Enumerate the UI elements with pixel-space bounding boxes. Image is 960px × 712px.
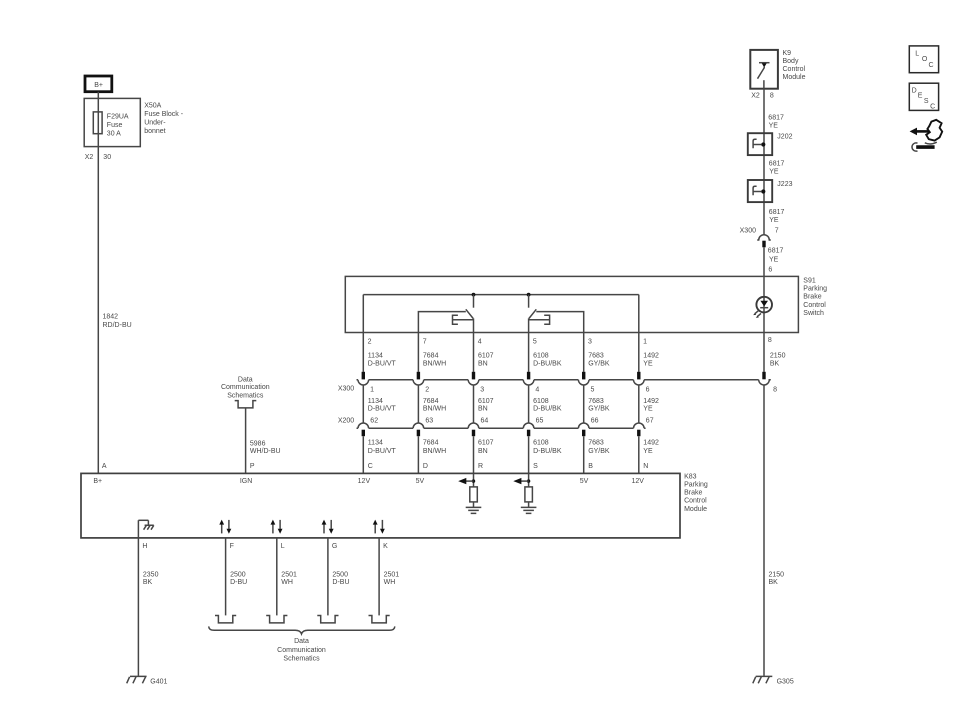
svg-text:L: L	[281, 543, 285, 550]
svg-text:1: 1	[643, 339, 647, 346]
svg-text:B+: B+	[93, 478, 102, 485]
svg-text:5V: 5V	[416, 478, 425, 485]
svg-text:WH: WH	[384, 579, 396, 586]
svg-text:D: D	[423, 463, 428, 470]
svg-text:12V: 12V	[631, 478, 644, 485]
svg-text:65: 65	[536, 418, 544, 425]
svg-text:64: 64	[481, 418, 489, 425]
svg-text:Brake: Brake	[684, 490, 702, 497]
svg-text:BK: BK	[769, 579, 779, 586]
svg-text:Control: Control	[684, 498, 707, 505]
svg-text:GY/BK: GY/BK	[588, 405, 610, 412]
svg-text:J202: J202	[777, 134, 792, 141]
svg-text:Parking: Parking	[803, 286, 827, 293]
svg-text:1134: 1134	[368, 440, 383, 447]
svg-text:2: 2	[425, 387, 429, 394]
svg-text:Fuse: Fuse	[107, 122, 123, 129]
off-page connector symbol	[369, 616, 390, 623]
data wire to off-page connector	[225, 538, 227, 616]
svg-text:X2: X2	[751, 93, 760, 100]
off-page connector symbol at P	[235, 401, 257, 408]
svg-text:6108: 6108	[533, 440, 549, 447]
svg-text:7683: 7683	[588, 398, 604, 405]
svg-text:H: H	[142, 543, 147, 550]
splice J223	[748, 180, 772, 202]
svg-text:66: 66	[591, 418, 599, 425]
svg-text:6817: 6817	[769, 209, 785, 216]
data wire to off-page connector	[378, 538, 380, 616]
svg-text:G305: G305	[777, 678, 794, 685]
svg-text:D-BU: D-BU	[230, 579, 247, 586]
svg-text:2500: 2500	[230, 571, 246, 578]
internal pull-up resistor	[528, 473, 530, 487]
left switch contact	[418, 312, 465, 372]
svg-text:YE: YE	[769, 123, 779, 130]
svg-text:1: 1	[370, 387, 374, 394]
svg-text:8: 8	[773, 386, 777, 393]
icon DESC box	[909, 83, 938, 110]
svg-text:S: S	[533, 463, 538, 470]
svg-text:F29UA: F29UA	[107, 113, 129, 120]
svg-text:1492: 1492	[643, 440, 659, 447]
svg-text:GY/BK: GY/BK	[588, 448, 610, 455]
svg-text:X300: X300	[338, 386, 354, 393]
svg-text:YE: YE	[643, 405, 653, 412]
junction dot	[527, 293, 531, 297]
svg-text:8: 8	[768, 337, 772, 344]
svg-text:D-BU/BK: D-BU/BK	[533, 360, 562, 367]
off-page connector symbol	[317, 616, 338, 623]
svg-text:F: F	[230, 543, 234, 550]
svg-text:X200: X200	[338, 418, 354, 425]
connector band X300 (top) / X200 (bottom)	[357, 380, 771, 385]
svg-text:Under-: Under-	[144, 120, 166, 127]
svg-text:6108: 6108	[533, 353, 549, 360]
svg-text:7684: 7684	[423, 353, 439, 360]
svg-text:YE: YE	[643, 360, 653, 367]
svg-text:6108: 6108	[533, 398, 549, 405]
svg-text:7684: 7684	[423, 440, 439, 447]
wire pin 2	[362, 295, 364, 372]
svg-text:D-BU/BK: D-BU/BK	[533, 448, 562, 455]
svg-text:Brake: Brake	[803, 294, 821, 301]
svg-text:Body: Body	[783, 58, 799, 65]
internal chassis ground at H	[138, 519, 148, 521]
svg-text:BN: BN	[478, 405, 488, 412]
right switch contact	[536, 312, 583, 372]
splice J202	[748, 133, 772, 155]
svg-text:12V: 12V	[358, 478, 371, 485]
wire ticks at X300 row	[362, 372, 365, 380]
svg-text:2: 2	[368, 339, 372, 346]
svg-text:G401: G401	[150, 679, 167, 686]
svg-text:D-BU: D-BU	[332, 579, 349, 586]
svg-text:62: 62	[370, 418, 378, 425]
svg-text:7: 7	[775, 228, 779, 235]
svg-text:6817: 6817	[768, 248, 784, 255]
svg-text:1134: 1134	[368, 398, 383, 405]
svg-text:Control: Control	[803, 302, 826, 309]
svg-text:B: B	[588, 463, 593, 470]
svg-text:Data: Data	[294, 638, 309, 645]
svg-text:GY/BK: GY/BK	[588, 360, 610, 367]
svg-text:P: P	[250, 463, 255, 470]
svg-text:Control: Control	[783, 66, 806, 73]
brace for data communication schematics	[209, 626, 395, 634]
wire 6817 YE segment 1	[763, 89, 765, 235]
svg-text:YE: YE	[769, 217, 779, 224]
junction dot	[472, 293, 476, 297]
svg-text:D-BU/VT: D-BU/VT	[368, 360, 397, 367]
svg-text:Data: Data	[238, 377, 253, 384]
svg-text:7683: 7683	[588, 440, 604, 447]
ground symbol	[521, 507, 537, 513]
svg-text:BN: BN	[478, 360, 488, 367]
svg-text:2350: 2350	[143, 571, 159, 578]
module K9 Body Control Module box	[750, 50, 778, 89]
svg-text:YE: YE	[643, 448, 653, 455]
svg-text:7683: 7683	[588, 353, 604, 360]
fuse block X50A box	[84, 98, 140, 146]
off-page connector symbol	[266, 616, 287, 623]
wires X200 to module K83	[362, 436, 364, 473]
K9 driver/switch symbol	[759, 62, 770, 64]
svg-text:2150: 2150	[769, 571, 785, 578]
svg-text:3: 3	[588, 339, 592, 346]
svg-text:6: 6	[646, 387, 650, 394]
svg-text:6: 6	[768, 267, 772, 274]
svg-text:C: C	[368, 463, 373, 470]
svg-text:Fuse Block -: Fuse Block -	[144, 111, 184, 118]
svg-text:7: 7	[423, 339, 427, 346]
svg-text:X300: X300	[740, 228, 756, 235]
fuse F29UA	[93, 112, 102, 134]
data wire to off-page connector	[276, 538, 278, 616]
svg-text:bonnet: bonnet	[144, 128, 165, 135]
svg-text:K83: K83	[684, 473, 697, 480]
ground symbol	[466, 507, 482, 513]
svg-text:Module: Module	[684, 506, 707, 513]
svg-text:8: 8	[770, 93, 774, 100]
svg-text:30: 30	[103, 154, 111, 161]
svg-text:D-BU/VT: D-BU/VT	[368, 405, 397, 412]
svg-text:E: E	[918, 93, 923, 100]
svg-text:30 A: 30 A	[107, 130, 121, 137]
svg-text:67: 67	[646, 418, 654, 425]
svg-text:YE: YE	[769, 256, 779, 263]
wire 6817 YE segment 4	[763, 247, 765, 372]
svg-text:Schematics: Schematics	[227, 393, 264, 400]
svg-text:6817: 6817	[769, 161, 785, 168]
svg-text:Switch: Switch	[803, 310, 824, 317]
LED indicator	[756, 297, 772, 313]
icon LOC box	[909, 46, 938, 73]
svg-text:RD/D-BU: RD/D-BU	[103, 322, 132, 329]
svg-text:Communication: Communication	[221, 384, 270, 391]
svg-text:Module: Module	[783, 74, 806, 81]
svg-text:X50A: X50A	[144, 103, 161, 110]
band cell borders	[362, 385, 364, 423]
svg-text:C: C	[929, 62, 934, 69]
svg-text:BN/WH: BN/WH	[423, 448, 446, 455]
svg-text:S: S	[924, 98, 929, 105]
svg-text:B+: B+	[94, 82, 103, 89]
svg-text:K: K	[383, 543, 388, 550]
svg-text:2150: 2150	[770, 353, 786, 360]
svg-text:4: 4	[535, 387, 539, 394]
svg-text:BN/WH: BN/WH	[423, 405, 446, 412]
svg-text:L: L	[915, 50, 919, 57]
svg-text:A: A	[102, 463, 107, 470]
wire B+ to fuse block to module A	[97, 92, 99, 474]
data wire to off-page connector	[327, 538, 329, 616]
svg-text:1134: 1134	[368, 353, 383, 360]
wire pin 1	[638, 295, 640, 372]
svg-text:K9: K9	[783, 50, 792, 57]
module K83 Parking Brake Control Module box	[81, 473, 680, 538]
wire ticks at X200 row	[362, 430, 365, 437]
svg-text:BN/WH: BN/WH	[423, 360, 446, 367]
svg-text:2501: 2501	[281, 571, 297, 578]
svg-text:6107: 6107	[478, 398, 494, 405]
svg-text:5: 5	[591, 387, 595, 394]
svg-text:O: O	[922, 56, 928, 63]
svg-text:X2: X2	[85, 154, 94, 161]
svg-text:6107: 6107	[478, 353, 494, 360]
svg-text:1492: 1492	[643, 398, 659, 405]
svg-text:WH: WH	[281, 579, 293, 586]
svg-text:N: N	[643, 463, 648, 470]
svg-text:WH/D-BU: WH/D-BU	[250, 448, 281, 455]
svg-text:3: 3	[480, 387, 484, 394]
svg-text:63: 63	[425, 418, 433, 425]
svg-text:1492: 1492	[643, 353, 659, 360]
svg-text:C: C	[930, 103, 935, 110]
svg-text:1842: 1842	[103, 314, 119, 321]
svg-text:6107: 6107	[478, 440, 494, 447]
svg-text:Schematics: Schematics	[283, 656, 320, 663]
svg-text:D: D	[912, 87, 917, 94]
connector X300 pin 8 on right wire	[762, 372, 765, 380]
svg-text:S91: S91	[803, 278, 816, 285]
ground G305	[756, 675, 773, 677]
svg-text:2501: 2501	[384, 571, 400, 578]
svg-text:6817: 6817	[768, 115, 784, 122]
svg-text:2500: 2500	[332, 571, 348, 578]
internal pull-up resistor	[473, 473, 475, 487]
svg-text:G: G	[332, 543, 337, 550]
svg-text:Communication: Communication	[277, 647, 326, 654]
wire 5986 WH/D-BU	[245, 408, 247, 474]
svg-text:R: R	[478, 463, 483, 470]
svg-text:5V: 5V	[580, 478, 589, 485]
svg-text:J223: J223	[777, 181, 792, 188]
svg-text:7684: 7684	[423, 398, 439, 405]
svg-text:IGN: IGN	[240, 478, 252, 485]
svg-text:Parking: Parking	[684, 482, 708, 489]
switch S91 Parking Brake Control Switch box	[345, 276, 798, 332]
icon repair instructions (arrow, part, wrench)	[910, 128, 917, 136]
svg-text:5986: 5986	[250, 440, 266, 447]
svg-text:BN: BN	[478, 448, 488, 455]
svg-text:D-BU/VT: D-BU/VT	[368, 448, 397, 455]
svg-text:BK: BK	[143, 579, 153, 586]
svg-text:D-BU/BK: D-BU/BK	[533, 405, 562, 412]
ground G401	[130, 675, 147, 677]
bidirectional data arrows	[221, 524, 223, 534]
off-page connector symbol	[215, 616, 236, 623]
svg-text:4: 4	[478, 339, 482, 346]
power feed B+ symbol	[85, 76, 112, 92]
svg-text:BK: BK	[770, 360, 780, 367]
svg-text:YE: YE	[769, 169, 779, 176]
svg-text:5: 5	[533, 339, 537, 346]
wire 2150 BK lower	[763, 385, 765, 676]
internal bus wire	[363, 294, 639, 296]
wire 2350 BK	[137, 520, 139, 676]
